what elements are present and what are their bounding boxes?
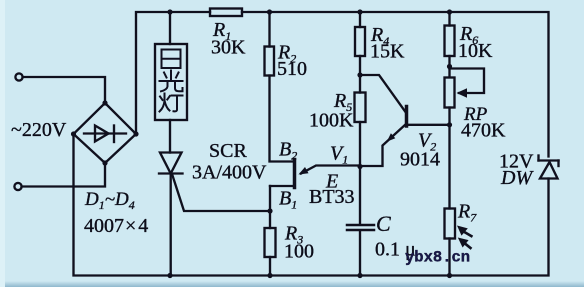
svg-text:9014: 9014 [400, 149, 440, 171]
svg-text:~220V: ~220V [11, 119, 67, 141]
svg-text:100: 100 [284, 241, 314, 263]
svg-text:4007×4: 4007×4 [84, 215, 148, 237]
svg-text:510: 510 [277, 58, 307, 80]
svg-text:100K: 100K [309, 110, 354, 132]
svg-text:DW: DW [500, 167, 534, 189]
svg-text:BT33: BT33 [309, 186, 355, 208]
svg-text:C: C [376, 211, 391, 236]
svg-text:D1~D4: D1~D4 [84, 189, 135, 212]
svg-text:30K: 30K [211, 37, 246, 59]
svg-text:10K: 10K [458, 40, 493, 62]
svg-text:SCR: SCR [209, 140, 247, 162]
svg-text:15K: 15K [370, 41, 405, 63]
svg-text:ybx8.cn: ybx8.cn [405, 249, 470, 267]
svg-text:3A/400V: 3A/400V [192, 162, 267, 184]
svg-text:470K: 470K [461, 120, 506, 142]
